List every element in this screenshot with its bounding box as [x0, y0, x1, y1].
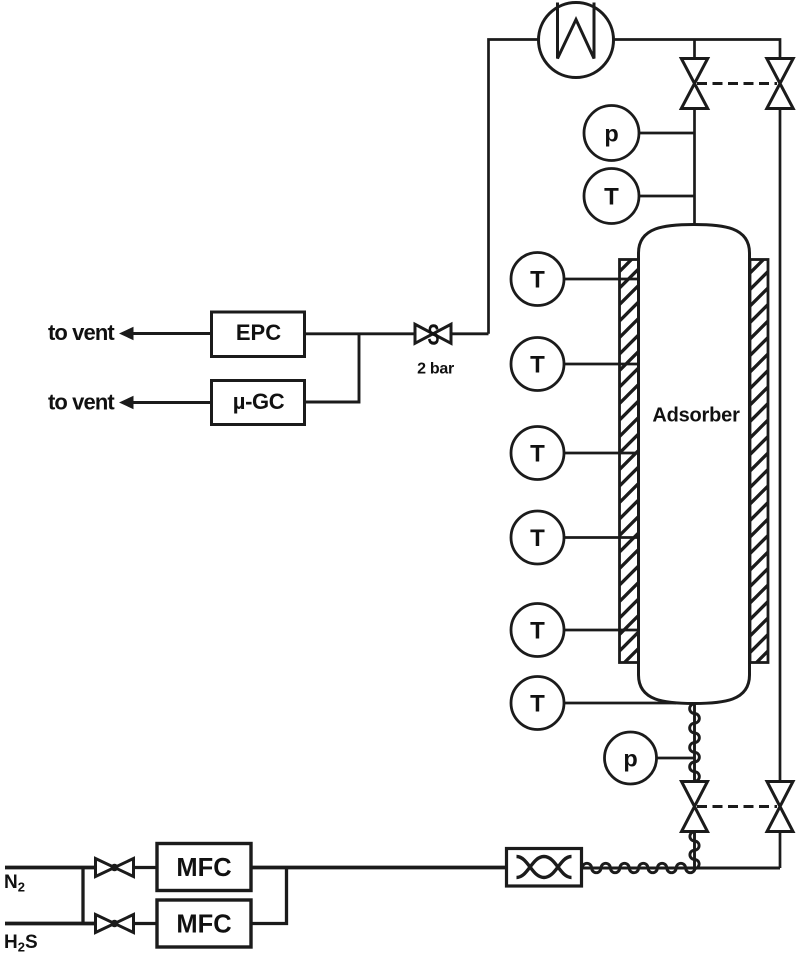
EPC box	[212, 312, 305, 357]
instrument circle T (top)	[584, 169, 639, 224]
arrow vent 2	[119, 396, 134, 409]
wire top-left riser (valve to heat exchanger)	[489, 40, 539, 334]
heater jacket hatched bar left	[620, 260, 639, 663]
wire MFC2 output riser	[251, 868, 287, 924]
instrument circle T2	[511, 338, 564, 391]
uGC box	[212, 381, 305, 425]
dashed link between top valves	[697, 82, 777, 85]
dashed link between bottom valves	[697, 805, 777, 808]
svg-text:T: T	[530, 525, 545, 552]
svg-text:p: p	[623, 746, 637, 772]
valve V4 bottom-right	[767, 782, 793, 832]
wire bottom line valve junction to right corner	[695, 867, 781, 870]
valve V3 bottom-left	[682, 782, 708, 832]
instrument circle p (bottom)	[605, 732, 657, 784]
svg-text:T: T	[530, 441, 545, 468]
heater jacket hatched bar right	[750, 260, 768, 663]
wire T to riser	[639, 195, 695, 198]
wire vent line 1	[130, 332, 212, 335]
svg-text:EPC: EPC	[236, 320, 281, 345]
svg-text:Adsorber: Adsorber	[652, 405, 740, 427]
arrow vent 1	[119, 327, 134, 340]
instrument circle T5	[511, 604, 564, 657]
wire vent line 2	[130, 401, 212, 404]
wire T3 to vessel	[564, 452, 639, 455]
valve V2 top-right	[767, 59, 793, 109]
valve N2 (with dot)	[96, 859, 134, 877]
wire T1 to vessel	[564, 278, 639, 281]
svg-text:S: S	[428, 319, 440, 351]
MFC box 2	[157, 900, 251, 947]
instrument circle p (top)	[584, 106, 639, 161]
svg-text:MFC: MFC	[176, 854, 231, 882]
wire T4 to vessel	[564, 536, 639, 539]
MFC box 1	[157, 844, 251, 891]
wire T6 to vessel bottom	[564, 702, 676, 705]
coiled wire bottom valve to main line	[690, 832, 699, 869]
pressure regulator valve 2 bar	[415, 324, 451, 343]
wire T2 to vessel	[564, 363, 639, 366]
wire T5 to vessel	[564, 629, 639, 632]
heat exchanger W circle	[539, 3, 614, 78]
wire stub to top-left valve	[693, 40, 696, 59]
wire N2 feed line	[5, 866, 96, 870]
svg-text:H2S: H2S	[4, 932, 38, 955]
svg-text:T: T	[530, 352, 545, 379]
wire valve to MFC1	[134, 866, 158, 869]
static mixer box	[507, 849, 582, 887]
wire MFC output main line to mixer	[251, 866, 507, 870]
svg-text:2 bar: 2 bar	[417, 361, 454, 378]
svg-text:µ-GC: µ-GC	[233, 389, 285, 414]
svg-text:T: T	[530, 267, 545, 294]
svg-text:T: T	[530, 618, 545, 645]
instrument circle T4	[511, 511, 564, 564]
svg-text:T: T	[604, 184, 619, 211]
svg-text:to vent: to vent	[48, 320, 115, 345]
coiled wire mixer to junction	[582, 863, 696, 872]
wire top pipe right of heat exchanger	[614, 40, 781, 59]
instrument circle T1	[511, 253, 564, 306]
svg-text:to vent: to vent	[48, 390, 115, 415]
wire feed cross connector	[81, 868, 84, 924]
svg-text:p: p	[604, 121, 618, 147]
coiled wire vessel bottom to valve	[690, 704, 700, 782]
wire H2S feed line	[5, 922, 96, 926]
svg-text:N2: N2	[4, 872, 25, 895]
wire valve to MFC2	[134, 922, 158, 925]
wire right-side long pipe	[779, 109, 782, 782]
wire EPC to 2bar valve	[305, 332, 416, 335]
wire bottom-right valve drop	[779, 832, 782, 869]
svg-text:T: T	[530, 691, 545, 718]
wire junction to uGC	[305, 334, 360, 402]
wire top valve to adsorber top	[693, 109, 696, 226]
wire p to coil	[657, 757, 695, 760]
wire 2bar valve to riser	[451, 332, 489, 335]
adsorber vessel	[639, 225, 750, 704]
instrument circle T6	[511, 677, 564, 730]
valve H2S (with dot)	[96, 915, 134, 933]
instrument circle T3	[511, 427, 564, 480]
svg-text:MFC: MFC	[176, 911, 231, 939]
valve V1 top-left	[681, 59, 707, 109]
wire p to riser	[639, 132, 695, 135]
